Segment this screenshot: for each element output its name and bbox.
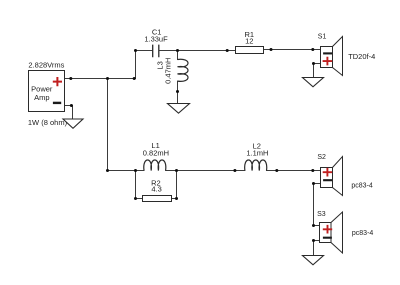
node: L3 bottom pin	[176, 90, 179, 93]
svg-text:Amp: Amp	[34, 93, 49, 102]
ground below L3	[168, 104, 190, 114]
capacitor C1 plates	[153, 45, 159, 58]
svg-text:pc83-4: pc83-4	[352, 230, 374, 237]
node: R2 left corner	[134, 197, 137, 200]
node: amp + pin	[69, 77, 72, 80]
inductor L3 (0.47mH)	[178, 59, 189, 81]
node: S1 top pin	[311, 48, 314, 51]
wire: L2 to S2	[267, 170, 321, 172]
node: bottom rail corner	[106, 169, 109, 172]
svg-text:TD20f-4: TD20f-4	[348, 52, 375, 61]
node: L1 left T	[134, 169, 137, 172]
svg-text:S3: S3	[317, 211, 326, 218]
svg-text:S1: S1	[318, 34, 327, 41]
node: L1 right T	[175, 169, 178, 172]
wire: S2 bottom pin down to S3 top pin	[314, 184, 321, 226]
wire: amp + terminal to riser	[65, 78, 136, 80]
wire: L3 branch down from top rail	[177, 51, 179, 60]
inductor L1 (0.82mH)	[144, 160, 166, 171]
wire: L3 bottom to ground	[177, 81, 179, 103]
node: L2 right pin	[275, 169, 278, 172]
inductor L2 (1.1mH)	[245, 160, 267, 171]
ground below power amp	[63, 119, 83, 128]
node: S2 bottom pin	[312, 182, 315, 185]
wire: S1 bottom pin to ground	[314, 64, 321, 78]
wire: R1 to S1	[264, 49, 321, 51]
resistor R2 body	[143, 196, 172, 202]
svg-text:12: 12	[245, 37, 253, 46]
speaker S1	[321, 37, 343, 76]
node: R2 right corner	[175, 197, 178, 200]
wire: vertical riser down to bottom rail	[107, 79, 109, 171]
wire: amp - terminal to ground	[65, 106, 73, 120]
node: S3 top pin	[312, 224, 315, 227]
node: R1 right pin	[270, 48, 273, 51]
svg-text:1.1mH: 1.1mH	[246, 149, 268, 158]
svg-text:0.47mH: 0.47mH	[163, 58, 172, 84]
ground below S3	[303, 256, 324, 265]
wire: R2 left leg	[136, 171, 143, 199]
wire: bottom rail to L1	[108, 170, 145, 172]
node: riser T junction	[106, 77, 109, 80]
power amp - terminal mark	[53, 102, 61, 104]
wire: S3 bottom pin to ground	[314, 241, 320, 256]
speaker S3	[320, 212, 343, 253]
ground below S1	[303, 78, 324, 87]
wire: C1 to R1	[160, 50, 236, 52]
node: L2 left pin	[233, 169, 236, 172]
node: S3 bottom pin	[312, 239, 315, 242]
node: corner at top riser top	[134, 49, 137, 52]
svg-text:1W (8 ohm): 1W (8 ohm)	[28, 118, 68, 127]
node: corner before top riser	[133, 77, 136, 80]
svg-text:1.33uF: 1.33uF	[144, 35, 168, 44]
svg-text:S2: S2	[317, 154, 326, 161]
node: amp - pin	[70, 104, 73, 107]
svg-text:0.82mH: 0.82mH	[143, 148, 169, 157]
wire: L1 to L2	[166, 170, 245, 172]
svg-text:pc83-4: pc83-4	[351, 183, 373, 190]
wire: vertical riser up to top rail	[135, 51, 137, 79]
power amp + terminal mark	[53, 77, 62, 86]
power amp source box	[29, 71, 65, 112]
resistor R1 body	[236, 47, 264, 54]
node: L3 branch T	[176, 49, 179, 52]
node: S2 top pin	[311, 169, 314, 172]
wire: top rail from riser to C1	[136, 50, 153, 52]
node: R1 left pin	[226, 49, 229, 52]
node: S1 bottom pin	[312, 62, 315, 65]
svg-text:2.828Vrms: 2.828Vrms	[28, 61, 64, 70]
wire: R2 right leg	[172, 171, 177, 199]
speaker S2	[321, 157, 343, 196]
svg-text:4.3: 4.3	[151, 185, 161, 194]
